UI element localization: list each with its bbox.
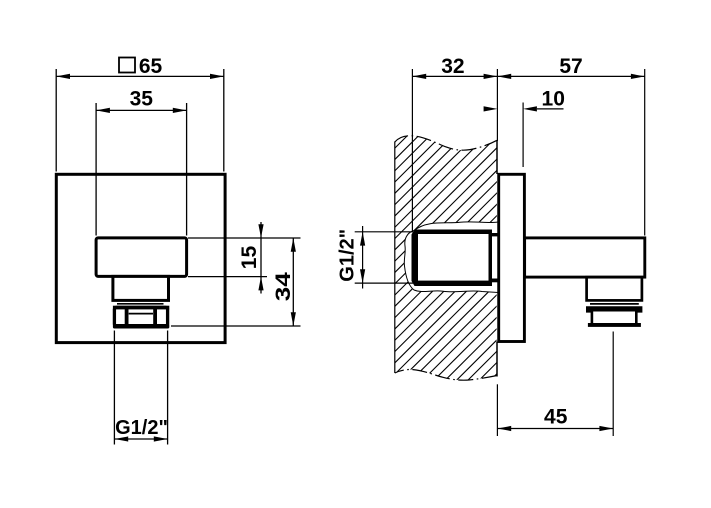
leader line block-bottom <box>188 276 267 278</box>
dim-10 arrows and line <box>484 106 564 111</box>
dim-65 extension lines <box>56 69 224 172</box>
dim-10 extension line <box>522 103 524 168</box>
dim-32/57 shared extension <box>496 69 498 141</box>
dim-57 extension line right <box>644 69 646 236</box>
dim-15 line <box>258 222 263 294</box>
wall break-out blob around fitting <box>404 222 498 293</box>
dim-34 line <box>291 238 296 326</box>
label 35 <box>130 87 154 110</box>
flange ring (side view) <box>586 306 642 312</box>
label 57 <box>559 55 582 78</box>
chamfer line (front) <box>117 303 164 305</box>
label 34 <box>272 272 295 301</box>
chamfer line (side view) <box>590 303 639 305</box>
dim-45 dimension line <box>497 426 613 431</box>
wall plate (side view) <box>499 174 525 341</box>
dim-32 dimension line <box>412 74 497 79</box>
dim-65 dimension line <box>56 74 224 79</box>
svg-text:45: 45 <box>544 405 568 428</box>
label 10 <box>542 88 565 111</box>
dim-35 dimension line <box>96 108 187 113</box>
label G1/2 right <box>337 229 359 282</box>
leader line block-top <box>188 237 301 239</box>
wall face line <box>496 140 498 376</box>
dim-G12-left dimension line <box>114 436 167 441</box>
label 45 <box>544 405 568 428</box>
dim-G12-right leader lines <box>355 232 413 283</box>
wall bottom break line <box>395 369 497 380</box>
label 15 <box>238 246 261 270</box>
wall left edge <box>394 142 396 374</box>
dim-32 extension line <box>411 69 413 231</box>
in-wall fitting (G1/2 union) <box>412 230 499 287</box>
wall top break line <box>395 136 497 150</box>
leader line nut-bottom <box>171 325 301 327</box>
nozzle step (side view) <box>587 277 642 300</box>
outlet block (front) <box>96 238 187 277</box>
svg-text:57: 57 <box>559 55 582 78</box>
dim-G12-left extension lines <box>114 331 167 445</box>
hex nut (side view) <box>588 310 641 327</box>
svg-text:15: 15 <box>238 246 261 270</box>
label G1/2 left <box>115 417 168 439</box>
svg-text:32: 32 <box>441 55 464 78</box>
hex nut (front) <box>113 306 169 329</box>
svg-text:10: 10 <box>542 88 565 111</box>
dim-45 extension lines <box>497 332 613 437</box>
wall plate (front view, 65x65 square) <box>56 174 225 342</box>
dim-57 dimension line <box>497 74 644 79</box>
svg-text:65: 65 <box>139 55 163 78</box>
wall section hatching <box>113 125 711 385</box>
dim-G12-right dimension line <box>360 226 365 289</box>
square-section symbol <box>119 58 135 73</box>
spout arm (side view) <box>525 238 645 277</box>
svg-text:G1/2": G1/2" <box>337 229 359 282</box>
svg-text:35: 35 <box>130 87 154 110</box>
label 65 <box>139 55 163 78</box>
svg-text:G1/2": G1/2" <box>115 417 168 439</box>
connector step (front) <box>113 276 169 300</box>
svg-text:34: 34 <box>272 272 295 301</box>
label 32 <box>441 55 464 78</box>
dim-35 extension lines <box>96 103 187 236</box>
